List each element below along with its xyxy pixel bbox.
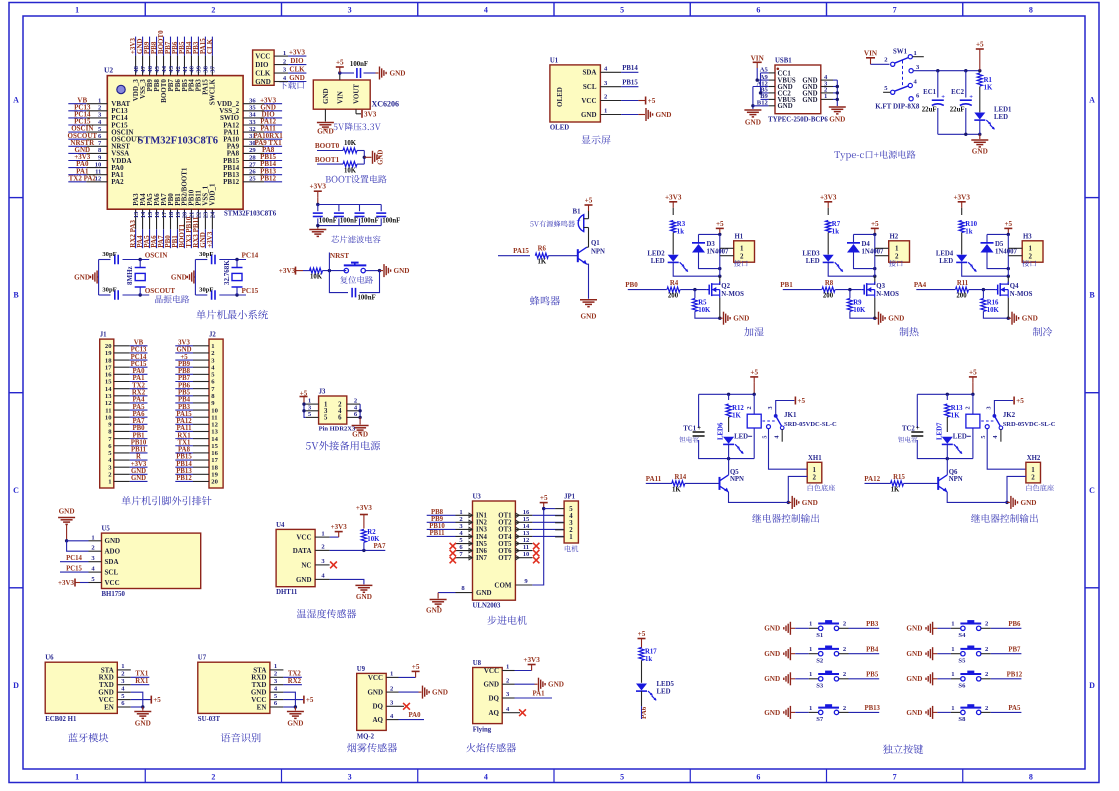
svg-text:+5: +5: [153, 696, 161, 704]
label danpianji yinjiao waiyin paizhen: [121, 496, 211, 505]
svg-text:5: 5: [324, 415, 328, 422]
driver U3 pin 12 OT5: [498, 537, 539, 549]
buzzer B1: [573, 209, 589, 239]
svg-text:1k: 1k: [645, 656, 652, 663]
connector J2 pin 2 / net GND: [175, 347, 215, 358]
svg-text:PB4: PB4: [866, 647, 879, 654]
svg-text:R12: R12: [732, 405, 744, 412]
resistor R? 10K (BOOT1): [343, 162, 364, 175]
svg-text:48: 48: [133, 65, 140, 72]
svg-text:PA5: PA5: [133, 404, 146, 411]
power +3V3 (U8): [515, 656, 541, 671]
svg-text:VCC: VCC: [296, 534, 311, 542]
svg-text:JK2: JK2: [1003, 411, 1016, 419]
svg-text:Q6: Q6: [949, 469, 958, 476]
resistor R2 10K: [361, 529, 380, 550]
net label BOOT1: [315, 156, 343, 164]
svg-text:1: 1: [459, 509, 462, 516]
svg-text:10K: 10K: [344, 140, 357, 147]
svg-text:STM32F103C8T6: STM32F103C8T6: [224, 211, 277, 218]
connector USB1 pin A9 VBUS: [760, 74, 796, 85]
svg-text:DIO: DIO: [290, 57, 304, 65]
label jiekou (H1): [734, 260, 748, 267]
svg-text:DQ: DQ: [373, 703, 384, 711]
label xianshiping: [581, 135, 610, 144]
wire XH2 pin2: [1005, 476, 1026, 504]
ground GND (Q3): [875, 312, 904, 325]
label 制冷: [1033, 327, 1052, 336]
svg-text:OSCOUT: OSCOUT: [145, 287, 176, 295]
svg-text:17: 17: [211, 457, 218, 464]
connector JP1 pin 4: [555, 513, 573, 520]
svg-text:GND: GND: [476, 589, 492, 597]
mcu U2 pin 37 SWCLK / net CLK: [206, 37, 217, 106]
svg-text:GND: GND: [289, 74, 305, 82]
svg-text:RX2: RX2: [288, 678, 302, 685]
svg-text:LED: LED: [806, 258, 820, 265]
power +5 (U9): [399, 663, 420, 678]
svg-text:GND: GND: [656, 111, 672, 119]
svg-text:PA7: PA7: [133, 418, 146, 425]
net label PC14 (U5 SDA): [60, 555, 89, 562]
svg-text:GND: GND: [105, 537, 121, 545]
svg-text:U2: U2: [104, 66, 113, 75]
svg-text:1: 1: [321, 530, 324, 537]
svg-text:GND: GND: [802, 499, 818, 507]
svg-text:16: 16: [154, 211, 161, 218]
sensor U8 pin 2 GND: [483, 677, 514, 688]
svg-text:1N4007: 1N4007: [707, 249, 730, 256]
connector J3 pins 5/6: [306, 411, 360, 422]
svg-text:GND: GND: [131, 468, 146, 475]
wire JK1 NO to XH1: [769, 429, 808, 470]
svg-text:30pF: 30pF: [199, 251, 213, 258]
svg-text:PB12: PB12: [223, 178, 239, 186]
svg-text:Q3: Q3: [876, 283, 885, 290]
svg-text:16: 16: [523, 509, 530, 516]
connector J1 pin 14 / net TX2: [105, 382, 148, 393]
svg-text:LED: LED: [994, 114, 1008, 121]
connector J1 pin 19 / net PC13: [105, 347, 148, 358]
connector J2 pin 19 / net PB13: [175, 468, 218, 479]
svg-text:LED3: LED3: [802, 250, 820, 257]
label jiekou (H2): [889, 260, 903, 267]
svg-text:15: 15: [147, 211, 154, 218]
svg-text:22uF: 22uF: [922, 107, 937, 114]
resistor R4 200: [667, 280, 707, 299]
mcu U2 pin 24 VDD_1 / net +3V3: [206, 183, 217, 248]
svg-text:GND: GND: [733, 315, 749, 323]
svg-text:BH1750: BH1750: [102, 591, 126, 598]
svg-text:ULN2003: ULN2003: [473, 603, 502, 610]
label 5V waijie beiyong dianyuan: [306, 441, 380, 451]
label 5V youyuan fengmingqi: [530, 220, 575, 227]
svg-text:25: 25: [249, 176, 256, 183]
svg-text:1: 1: [91, 534, 94, 541]
svg-text:2: 2: [211, 6, 215, 15]
power +3V3 (filter caps): [310, 183, 327, 207]
svg-text:GND: GND: [581, 313, 597, 321]
svg-text:PA0: PA0: [409, 712, 422, 719]
svg-text:BOOT0: BOOT0: [315, 142, 340, 150]
net label PB1: [780, 281, 822, 289]
power +5 (rail): [976, 41, 984, 71]
mcu U2 pin 31 PA10 / net PA10RX1: [223, 132, 283, 144]
resistor R13 1K: [945, 404, 963, 432]
svg-text:PA7: PA7: [374, 543, 387, 550]
wire S5 left: [933, 646, 961, 654]
driver U3 pin 1 IN1: [427, 509, 488, 520]
mcu U2 pin 9 VDDA / net +3V3: [68, 153, 131, 165]
svg-text:STM32F103C8T6: STM32F103C8T6: [138, 136, 219, 147]
connector USB1 right pin 1 GND: [802, 93, 833, 104]
module U6 pin 6 EN: [104, 700, 131, 711]
svg-text:VCC: VCC: [105, 579, 120, 587]
svg-text:10K: 10K: [344, 168, 357, 175]
svg-text:2: 2: [1029, 252, 1033, 260]
label jidianqi kongzhi shuchu (JK2): [971, 514, 1038, 523]
svg-text:100nF: 100nF: [382, 218, 400, 225]
svg-text:SW1: SW1: [893, 49, 908, 56]
connector JP1 pin 2: [555, 527, 573, 534]
ground GND (S7): [764, 706, 790, 719]
svg-text:13: 13: [105, 393, 112, 400]
capacitor 100nF (XC6206 input): [350, 61, 368, 78]
svg-text:1: 1: [951, 671, 954, 678]
wire S2 left: [790, 646, 818, 654]
svg-text:H3: H3: [1023, 233, 1032, 240]
connector H1 body: [720, 233, 755, 262]
ground GND (U7): [287, 707, 304, 728]
svg-text:1: 1: [274, 663, 277, 670]
svg-text:PB0: PB0: [132, 425, 145, 432]
connector H2 body: [875, 233, 910, 262]
wire U6 gnd/en: [131, 692, 145, 709]
svg-text:SWCLK: SWCLK: [209, 79, 217, 106]
module U6 pin 2 RXD: [99, 671, 131, 682]
svg-text:S2: S2: [816, 657, 824, 664]
svg-text:15: 15: [105, 379, 112, 386]
svg-text:PA11: PA11: [177, 425, 193, 432]
sensor U4 pin 2 DATA: [293, 544, 330, 555]
svg-text:1k: 1k: [832, 229, 839, 236]
connector P1 pin 3 CLK / net CLK: [255, 66, 306, 78]
connector JP1 pin 1: [555, 534, 573, 541]
svg-text:R13: R13: [951, 405, 963, 412]
wire D5 loop: [987, 233, 1010, 285]
svg-text:Flying: Flying: [473, 726, 492, 733]
connector J1 pin 15 / net PA1: [105, 375, 148, 386]
wire S7 right / net PB13: [839, 705, 881, 713]
svg-text:VB: VB: [134, 340, 144, 347]
svg-text:6: 6: [756, 773, 760, 782]
svg-text:GND: GND: [802, 97, 817, 104]
driver U3 pin 6 IN6: [450, 544, 488, 556]
svg-text:GND: GND: [171, 273, 187, 281]
mcu U2 pin 5 OSCIN / net OSCIN: [68, 125, 133, 137]
svg-text:IN2: IN2: [476, 520, 488, 527]
connector J1 pin 11 / net PA5: [105, 404, 147, 415]
svg-text:PB6: PB6: [178, 382, 191, 389]
svg-text:1: 1: [75, 773, 79, 782]
svg-text:VIN: VIN: [751, 54, 765, 62]
svg-text:DHT11: DHT11: [276, 589, 298, 596]
net label BOOT0: [315, 142, 343, 150]
net label PB0: [625, 281, 667, 289]
svg-text:PC14: PC14: [242, 252, 259, 260]
driver U3 pin 11 OT6: [498, 544, 539, 556]
svg-text:Q4: Q4: [1010, 283, 1019, 290]
svg-text:GND: GND: [287, 720, 303, 728]
connector J1 pin 12 / net PA4: [105, 397, 148, 408]
svg-text:LED4: LED4: [936, 250, 954, 257]
svg-text:30pF: 30pF: [102, 251, 116, 258]
capacitor 100nF filter #3: [355, 205, 379, 226]
module U6 pin 5 VCC: [99, 693, 131, 704]
label tantalum (TC2): [898, 436, 917, 442]
ground GND (S1): [764, 622, 790, 635]
svg-text:VCC: VCC: [484, 667, 499, 675]
svg-text:R10: R10: [965, 221, 977, 228]
svg-text:+5: +5: [540, 494, 548, 502]
ground GND (U9): [399, 686, 448, 699]
mcu U2 pin 20 PB2/BOOT1 / net BOOT1: [178, 167, 189, 248]
svg-text:N-MOS: N-MOS: [721, 291, 744, 298]
resistor R? 10K (BOOT0): [343, 140, 364, 153]
wire reset right: [365, 269, 383, 272]
display U1 OLED body: [550, 57, 601, 131]
svg-text:VCC: VCC: [368, 674, 383, 682]
svg-text:+5: +5: [716, 220, 724, 228]
svg-text:GND: GND: [322, 88, 330, 104]
svg-text:R4: R4: [670, 280, 679, 287]
label 加湿: [744, 327, 763, 336]
diode D3 1N4007: [692, 241, 729, 256]
svg-text:4: 4: [992, 436, 999, 439]
svg-text:JP1: JP1: [564, 493, 576, 500]
connector H3 body: [1008, 233, 1043, 262]
svg-text:U4: U4: [276, 522, 285, 529]
svg-text:46: 46: [147, 65, 154, 72]
svg-text:PA12: PA12: [176, 418, 192, 425]
module U7 pin 6 EN: [257, 700, 284, 711]
net label PA4: [914, 281, 955, 289]
svg-text:GND: GND: [367, 689, 383, 697]
svg-text:Pin HDR2X3: Pin HDR2X3: [319, 426, 356, 433]
svg-text:VCC: VCC: [255, 53, 270, 61]
svg-text:+3V3: +3V3: [206, 231, 214, 248]
connector J1 pin 2 / net GND: [108, 468, 147, 479]
svg-text:39: 39: [196, 65, 203, 72]
svg-text:41: 41: [182, 66, 189, 73]
label Pin HDR2X3: [319, 426, 356, 433]
svg-text:OT1: OT1: [498, 513, 512, 520]
mcu U2 pin 25 PB12 / net PB12: [223, 174, 282, 186]
svg-text:30pF: 30pF: [102, 287, 116, 294]
svg-text:2: 2: [965, 406, 972, 409]
ground GND (S5): [906, 647, 932, 660]
svg-text:OT6: OT6: [498, 548, 512, 555]
svg-text:10: 10: [105, 414, 112, 421]
svg-text:PB15: PB15: [176, 454, 192, 461]
wire XH1 pin2: [787, 476, 808, 504]
connector USB1 pin A12 GND: [756, 80, 792, 91]
svg-text:GND: GND: [906, 675, 922, 683]
relay JK1 coil: [746, 406, 761, 428]
svg-text:1K: 1K: [672, 486, 681, 493]
svg-text:40: 40: [189, 65, 196, 72]
led LED4: [936, 250, 1008, 276]
label wenshidu chuanganqi: [297, 609, 356, 618]
driver U3 pin 2 IN2: [427, 516, 488, 527]
wire relay JK2 top rail: [917, 393, 974, 461]
svg-text:3: 3: [986, 406, 993, 409]
power +5 (J3): [300, 389, 308, 404]
svg-text:EN: EN: [257, 703, 267, 711]
mcu U2 pin 7 NRST / net NRSTR: [68, 139, 130, 151]
connector P1 download-port body: [253, 50, 275, 85]
power +3V3 (U4 VCC): [330, 523, 348, 537]
wire U5 gnd/ado: [67, 541, 89, 551]
svg-text:+3V3: +3V3: [279, 267, 296, 275]
resistor R16 10K: [981, 290, 1010, 320]
svg-text:1: 1: [951, 646, 954, 653]
svg-text:+3V3: +3V3: [356, 504, 373, 512]
svg-text:1: 1: [604, 108, 607, 115]
ground GND (LED1): [971, 134, 988, 155]
connector J3 pins 1/2: [306, 398, 360, 409]
ground (filter caps): [309, 224, 326, 236]
power +3V3 (R7): [820, 193, 837, 215]
sensor U4 DHT11 body: [276, 522, 315, 596]
svg-text:100nF: 100nF: [340, 218, 358, 225]
svg-text:PB13: PB13: [864, 705, 880, 712]
power 3V3 (XC6206 VOUT): [356, 109, 377, 118]
ground GND (reset): [384, 264, 409, 277]
wire S1 left: [790, 621, 818, 629]
svg-text:SU-03T: SU-03T: [198, 716, 221, 723]
mcu U2 body: [104, 66, 277, 218]
led LED5: [636, 681, 674, 706]
svg-text:PB4: PB4: [178, 397, 191, 404]
svg-text:GND: GND: [548, 681, 564, 689]
svg-text:+5: +5: [750, 368, 758, 376]
svg-text:100nF: 100nF: [350, 61, 368, 68]
driver U3 pin 5 IN5: [450, 537, 488, 549]
svg-text:SDA: SDA: [105, 558, 119, 566]
svg-text:+3V3: +3V3: [58, 579, 75, 587]
svg-text:10K: 10K: [310, 274, 323, 281]
svg-text:14: 14: [140, 211, 147, 218]
display U1 pin 2 VCC: [581, 94, 621, 105]
svg-text:OLED: OLED: [550, 125, 569, 132]
wire reset left: [303, 270, 311, 272]
svg-text:GND: GND: [1022, 315, 1038, 323]
wire S7 left: [790, 705, 818, 713]
connector J1 pin 10 / net PA6: [105, 411, 148, 422]
svg-text:200: 200: [823, 292, 834, 299]
svg-text:13: 13: [133, 211, 140, 218]
capacitor 100nF filter #1: [313, 205, 337, 226]
svg-text:+5: +5: [797, 397, 805, 405]
power +5 (relay JK2): [969, 368, 977, 394]
wire S8 left: [933, 705, 961, 713]
connector J1 pin 4 / net R: [108, 454, 147, 465]
svg-text:PC14: PC14: [66, 555, 82, 562]
wire reset cap loop: [329, 271, 379, 293]
label baise dizuo (XH1): [808, 484, 835, 491]
ground GND (S6): [906, 672, 932, 685]
wire S4 left: [933, 621, 961, 629]
led LED3: [802, 250, 874, 276]
svg-text:MQ-2: MQ-2: [357, 733, 375, 740]
net label OSCOUT: [145, 287, 176, 295]
module U7 pin 1 STA: [253, 663, 283, 674]
net label RX2 (U7): [283, 678, 302, 685]
svg-text:TX1: TX1: [178, 439, 191, 446]
led LED1: [974, 107, 1012, 135]
svg-text:11: 11: [95, 169, 101, 176]
svg-text:15: 15: [523, 516, 530, 523]
svg-text:1: 1: [569, 534, 573, 541]
led LED2: [647, 250, 719, 276]
resistor 10K (reset): [310, 268, 323, 281]
svg-text:R2: R2: [367, 529, 376, 536]
ground GND (buzzer): [580, 300, 597, 321]
label Type-c kou dianyuan dianlu: [834, 150, 915, 160]
sensor U4 pin 1 VCC: [296, 530, 329, 541]
svg-text:+3V3: +3V3: [665, 193, 682, 201]
svg-text:18: 18: [211, 464, 218, 471]
svg-text:42: 42: [175, 65, 182, 72]
mcu U2 pin 46 PB9 / net PB9: [143, 37, 154, 92]
svg-text:10K: 10K: [987, 307, 1000, 314]
svg-text:R: R: [136, 454, 141, 461]
svg-text:CLK: CLK: [289, 66, 305, 74]
svg-text:IN5: IN5: [476, 541, 488, 548]
svg-text:1: 1: [809, 671, 812, 678]
wire D3 loop: [699, 233, 722, 285]
connector J2 pin 4 / net PB9: [175, 361, 215, 372]
sensor U4 pin 4 GND: [296, 573, 330, 584]
svg-text:LED5: LED5: [657, 681, 675, 688]
svg-text:+5: +5: [585, 197, 593, 205]
svg-text:OT4: OT4: [498, 534, 512, 541]
mcu U2 pin 23 VSS_1 / net GND: [199, 185, 210, 248]
svg-text:10K: 10K: [367, 536, 380, 543]
svg-text:U7: U7: [198, 655, 207, 662]
svg-text:GND: GND: [74, 273, 90, 281]
driver U3 pin 14 OT3: [498, 523, 564, 534]
sensor U5 BH1750 body: [102, 526, 201, 599]
switch SW1: [875, 49, 924, 111]
svg-text:SCL: SCL: [583, 83, 597, 91]
capacitor 100nF filter #2: [334, 205, 358, 226]
mcu U2 pin 19 PB1 / net PB1: [171, 193, 182, 248]
connector P1 pin 2 DIO / net DIO: [255, 57, 306, 69]
net label TX2 (U7): [283, 670, 302, 677]
svg-text:+5: +5: [336, 59, 344, 67]
resistor R7 1k: [826, 221, 841, 255]
capacitor 100nF (reset): [352, 288, 376, 302]
svg-text:7: 7: [893, 6, 897, 15]
svg-text:D: D: [13, 681, 19, 690]
svg-text:19: 19: [105, 350, 112, 357]
svg-text:PB14: PB14: [176, 461, 192, 468]
svg-text:S3: S3: [816, 682, 824, 689]
power +5 (D3): [716, 220, 724, 235]
svg-text:A: A: [13, 96, 19, 105]
